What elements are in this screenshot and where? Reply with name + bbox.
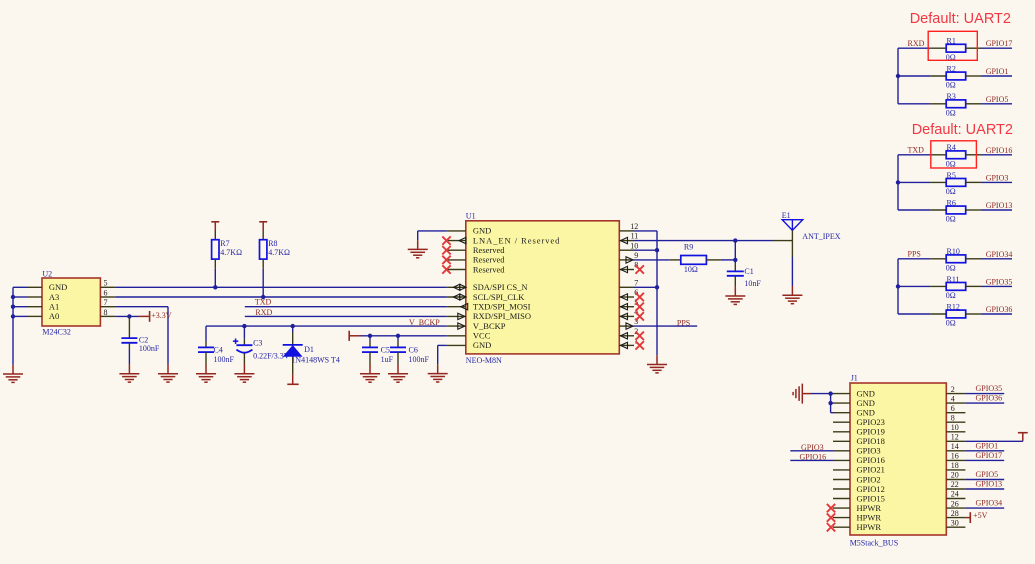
svg-text:LNA_EN / Reserved: LNA_EN / Reserved: [473, 235, 560, 245]
svg-text:2: 2: [951, 385, 955, 394]
svg-text:11: 11: [631, 232, 639, 241]
svg-text:12: 12: [630, 222, 638, 231]
svg-text:0Ω: 0Ω: [946, 263, 956, 272]
svg-text:7: 7: [634, 278, 638, 287]
svg-text:GPIO1: GPIO1: [986, 67, 1009, 76]
svg-text:GPIO17: GPIO17: [986, 39, 1013, 48]
svg-text:TXD: TXD: [908, 145, 925, 154]
svg-text:R10: R10: [947, 247, 960, 256]
svg-text:R6: R6: [947, 198, 956, 207]
svg-text:16: 16: [951, 452, 959, 461]
svg-text:C2: C2: [139, 335, 148, 344]
svg-text:8: 8: [104, 308, 108, 317]
svg-text:GPIO23: GPIO23: [857, 417, 885, 427]
svg-text:HPWR: HPWR: [857, 522, 882, 532]
svg-text:R3: R3: [947, 92, 956, 101]
svg-text:GND: GND: [857, 408, 875, 418]
svg-text:6: 6: [104, 288, 108, 297]
svg-text:GND: GND: [857, 388, 875, 398]
svg-text:J1: J1: [851, 374, 858, 383]
svg-text:GPIO3: GPIO3: [857, 446, 881, 456]
svg-text:GPIO13: GPIO13: [986, 201, 1013, 210]
svg-text:0Ω: 0Ω: [946, 81, 956, 90]
svg-text:5: 5: [104, 279, 108, 288]
svg-text:4.7KΩ: 4.7KΩ: [220, 248, 242, 257]
svg-text:18: 18: [951, 461, 959, 470]
svg-text:10: 10: [630, 241, 638, 250]
svg-text:28: 28: [951, 509, 959, 518]
svg-text:TXD/SPI_MOSI: TXD/SPI_MOSI: [473, 302, 531, 312]
svg-text:R9: R9: [684, 242, 693, 251]
svg-text:C6: C6: [409, 346, 418, 355]
svg-text:GPIO21: GPIO21: [857, 465, 885, 475]
svg-text:C4: C4: [214, 346, 223, 355]
svg-text:100nF: 100nF: [214, 355, 235, 364]
svg-text:12: 12: [951, 433, 959, 442]
svg-text:GND: GND: [473, 226, 491, 236]
svg-text:Default: UART2: Default: UART2: [912, 122, 1013, 138]
svg-text:C1: C1: [744, 267, 753, 276]
svg-text:GPIO35: GPIO35: [976, 384, 1003, 393]
svg-text:4: 4: [951, 394, 955, 403]
svg-text:100nF: 100nF: [409, 355, 430, 364]
svg-text:GPIO1: GPIO1: [976, 441, 999, 450]
svg-text:10nF: 10nF: [744, 279, 761, 288]
svg-text:PPS: PPS: [908, 249, 921, 258]
svg-text:14: 14: [951, 442, 959, 451]
svg-text:R4: R4: [947, 143, 956, 152]
svg-text:GND: GND: [857, 398, 875, 408]
svg-text:Default: UART2: Default: UART2: [910, 11, 1011, 27]
svg-text:M24C32: M24C32: [42, 328, 70, 337]
svg-text:SCL/SPI_CLK: SCL/SPI_CLK: [473, 292, 525, 302]
svg-text:R1: R1: [947, 37, 956, 46]
svg-text:C5: C5: [381, 346, 390, 355]
svg-text:1N4148WS T4: 1N4148WS T4: [291, 356, 340, 365]
svg-text:Reserved: Reserved: [473, 245, 505, 255]
svg-text:GPIO34: GPIO34: [976, 499, 1003, 508]
svg-text:GPIO3: GPIO3: [986, 173, 1009, 182]
svg-text:U1: U1: [466, 211, 476, 220]
svg-text:R12: R12: [947, 302, 960, 311]
svg-text:GPIO34: GPIO34: [986, 250, 1013, 259]
svg-text:GPIO36: GPIO36: [976, 394, 1003, 403]
svg-text:NEO-M8N: NEO-M8N: [466, 356, 502, 365]
svg-text:Reserved: Reserved: [473, 255, 505, 265]
svg-text:GPIO16: GPIO16: [800, 453, 827, 462]
svg-text:D1: D1: [304, 345, 314, 354]
svg-text:9: 9: [634, 251, 638, 260]
svg-text:+5V: +5V: [973, 511, 988, 520]
svg-text:A1: A1: [49, 302, 59, 312]
svg-text:SDA/SPI CS_N: SDA/SPI CS_N: [473, 282, 528, 292]
svg-text:U2: U2: [42, 270, 52, 279]
svg-text:0Ω: 0Ω: [946, 291, 956, 300]
svg-text:22: 22: [951, 480, 959, 489]
svg-text:0Ω: 0Ω: [946, 159, 956, 168]
svg-text:GPIO16: GPIO16: [857, 455, 885, 465]
svg-text:30: 30: [951, 518, 959, 527]
svg-text:1uF: 1uF: [381, 355, 394, 364]
svg-text:7: 7: [104, 298, 108, 307]
svg-text:+3.3V: +3.3V: [151, 311, 172, 320]
svg-text:TXD: TXD: [255, 298, 272, 307]
svg-text:C3: C3: [253, 338, 262, 347]
svg-text:ANT_IPEX: ANT_IPEX: [802, 232, 840, 241]
svg-text:R2: R2: [947, 64, 956, 73]
svg-text:RXD: RXD: [908, 39, 925, 48]
svg-text:R5: R5: [947, 171, 956, 180]
svg-text:10: 10: [951, 423, 959, 432]
svg-text:26: 26: [951, 499, 959, 508]
svg-text:GPIO16: GPIO16: [986, 146, 1013, 155]
svg-text:V_BCKP: V_BCKP: [473, 321, 506, 331]
svg-text:0Ω: 0Ω: [946, 215, 956, 224]
svg-text:GND: GND: [473, 340, 491, 350]
svg-text:R11: R11: [947, 275, 960, 284]
svg-text:GPIO35: GPIO35: [986, 277, 1013, 286]
svg-text:GPIO3: GPIO3: [801, 443, 824, 452]
svg-text:GPIO17: GPIO17: [976, 451, 1003, 460]
svg-text:R8: R8: [268, 239, 277, 248]
svg-text:VCC: VCC: [473, 331, 491, 341]
svg-text:A3: A3: [49, 292, 59, 302]
svg-text:M5Stack_BUS: M5Stack_BUS: [850, 539, 898, 548]
svg-text:HPWR: HPWR: [857, 503, 882, 513]
svg-text:GPIO2: GPIO2: [857, 474, 881, 484]
svg-text:20: 20: [951, 471, 959, 480]
svg-text:HPWR: HPWR: [857, 512, 882, 522]
svg-text:0Ω: 0Ω: [946, 187, 956, 196]
svg-text:4.7KΩ: 4.7KΩ: [268, 248, 290, 257]
svg-text:RXD: RXD: [255, 308, 272, 317]
svg-text:GPIO13: GPIO13: [976, 480, 1003, 489]
svg-text:GPIO36: GPIO36: [986, 305, 1013, 314]
svg-text:PPS: PPS: [677, 319, 690, 328]
svg-text:10Ω: 10Ω: [684, 265, 698, 274]
svg-text:V_BCKP: V_BCKP: [409, 318, 440, 327]
svg-text:Reserved: Reserved: [473, 264, 505, 274]
svg-text:GPIO5: GPIO5: [986, 95, 1009, 104]
svg-text:GPIO12: GPIO12: [857, 484, 885, 494]
svg-text:RXD/SPI_MISO: RXD/SPI_MISO: [473, 311, 531, 321]
svg-text:6: 6: [951, 404, 955, 413]
svg-text:GPIO15: GPIO15: [857, 493, 885, 503]
svg-text:R7: R7: [220, 239, 229, 248]
svg-text:0Ω: 0Ω: [946, 108, 956, 117]
svg-text:100nF: 100nF: [139, 344, 160, 353]
svg-text:GPIO19: GPIO19: [857, 427, 885, 437]
svg-text:GPIO18: GPIO18: [857, 436, 885, 446]
svg-text:8: 8: [951, 413, 955, 422]
svg-text:E1: E1: [782, 211, 791, 220]
svg-text:0Ω: 0Ω: [946, 319, 956, 328]
svg-text:GPIO5: GPIO5: [976, 470, 999, 479]
svg-text:24: 24: [951, 490, 959, 499]
svg-text:A0: A0: [49, 311, 59, 321]
svg-text:GND: GND: [49, 282, 67, 292]
